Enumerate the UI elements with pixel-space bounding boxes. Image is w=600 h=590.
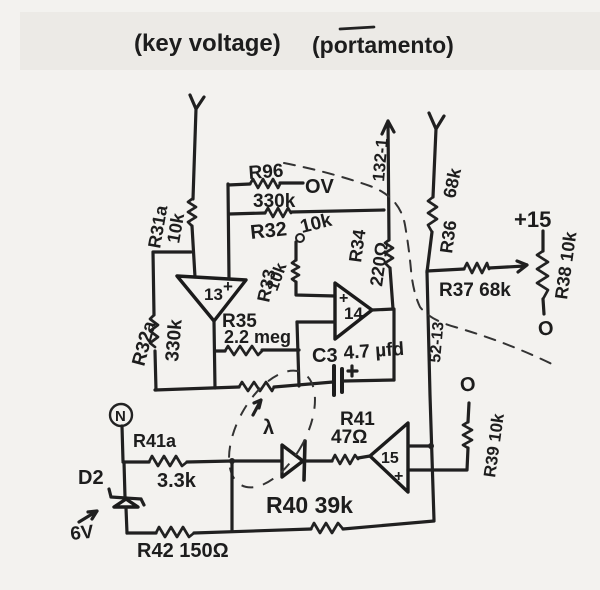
label R40 39k [266, 492, 353, 518]
wire bottom rail [127, 531, 156, 534]
op-amp U14 [335, 283, 372, 339]
label R33 [253, 267, 279, 303]
resistor R36 [428, 197, 437, 232]
wire junction vertical [229, 458, 235, 530]
svg-text:47Ω: 47Ω [331, 427, 367, 448]
svg-text:R40 39k: R40 39k [266, 492, 353, 518]
wire op-amp 13 plus input vertical [228, 184, 229, 278]
svg-text:O: O [459, 373, 477, 397]
label 6V [69, 522, 95, 545]
wire R41a left [123, 460, 149, 463]
label R41a [133, 431, 177, 451]
svg-text:2.2 meg: 2.2 meg [224, 327, 291, 347]
wire R33 top [294, 242, 297, 260]
wire R33 to op-amp 14 plus input [296, 282, 335, 296]
wire R34 to op-amp 14 output node [390, 268, 393, 309]
svg-text:OV: OV [305, 176, 335, 198]
wire R37 to wiper arrow [489, 261, 527, 272]
terminal circle node [296, 234, 304, 242]
label R32 value 10k [298, 210, 334, 238]
portamento input line fork [429, 113, 444, 197]
label lambda [263, 417, 274, 439]
label R35 value 2.2 meg [224, 327, 291, 347]
label R31a [144, 203, 171, 250]
wire bottom rail right [343, 521, 434, 529]
wire diode to R41 [306, 459, 332, 462]
svg-text:330k: 330k [162, 318, 187, 362]
wire zener to bottom rail [126, 508, 127, 533]
svg-text:N: N [115, 408, 126, 425]
node 132-1 input arrow [382, 121, 394, 240]
svg-text:λ: λ [263, 417, 274, 439]
label OV [305, 176, 335, 198]
label O below R38 [537, 317, 555, 341]
wire op-amp 14 minus input [297, 320, 335, 323]
LED of vactrol [282, 441, 305, 480]
wire bottom rail left [155, 387, 239, 390]
svg-text:14: 14 [344, 304, 363, 323]
label O above R39 [459, 373, 477, 397]
label R31a value 10k [163, 211, 188, 245]
label R33 value 10k [263, 260, 291, 294]
wire R96 left [228, 184, 250, 185]
wire C3 right to output node [344, 380, 394, 381]
svg-text:(key voltage): (key voltage) [134, 30, 281, 57]
wire R41 to op-amp 15 [358, 456, 370, 458]
net 52-13 vertical wire [427, 272, 434, 520]
svg-text:+: + [394, 468, 403, 485]
svg-text:R32: R32 [249, 218, 288, 244]
svg-text:3.3k: 3.3k [157, 470, 197, 492]
svg-text:O: O [537, 317, 555, 341]
svg-text:52-13: 52-13 [427, 321, 448, 363]
resistor R31a [188, 199, 196, 226]
wire R38 bottom [543, 299, 544, 314]
wire rail to C3 [274, 382, 333, 387]
wire R41a to junction [187, 461, 232, 462]
wire R32 left [229, 213, 265, 214]
label +15 [514, 207, 551, 232]
label R39 10k [480, 412, 508, 479]
wire op-amp 15 minus input to net 52-13 [408, 443, 434, 449]
label R36 value 68k [439, 165, 465, 200]
wire R96 to OV [280, 181, 303, 184]
op-amp U15 [370, 423, 408, 492]
resistor R39 [463, 422, 472, 448]
label R41 value 47 ohm [331, 427, 367, 448]
wire op-amp 14 output [372, 309, 394, 380]
wire minus input down to rail [297, 322, 299, 386]
svg-text:R41a: R41a [133, 431, 177, 451]
svg-text:R37 68k: R37 68k [439, 280, 511, 301]
svg-text:+15: +15 [514, 207, 551, 232]
label R36 [436, 219, 460, 254]
resistor R37 [464, 263, 489, 273]
svg-text:132-1: 132-1 [369, 137, 392, 182]
resistor R32a [150, 315, 158, 347]
zener diode D2 [109, 489, 144, 507]
resistor R96 [250, 179, 280, 188]
svg-text:6V: 6V [69, 522, 95, 545]
svg-text:D2: D2 [78, 467, 104, 489]
svg-text:13: 13 [204, 285, 223, 304]
label 52-13 [427, 321, 448, 363]
resistor R41 [332, 455, 358, 464]
label R32a value 330k [162, 318, 187, 362]
wire N to R41a row [122, 426, 123, 461]
wire op-amp 13 output down [214, 321, 215, 388]
wire N line to zener [124, 462, 125, 497]
wire R35 tap [215, 349, 225, 352]
label R32 [249, 218, 288, 244]
wire +15 to R38 [541, 231, 544, 251]
label C3 [312, 345, 338, 367]
wire R39 to op-amp 15 plus input [408, 448, 468, 470]
title portamento [312, 27, 454, 58]
wire bottom rail middle [194, 529, 311, 533]
svg-text:R96: R96 [248, 161, 284, 184]
svg-text:R42 150Ω: R42 150Ω [137, 540, 229, 562]
photoresistor of vactrol [239, 382, 274, 391]
wire R32a to bottom rail [155, 351, 156, 390]
label C3 value 4.7 ufd [343, 339, 405, 364]
label 132-1 [369, 137, 392, 182]
wire R31a to op-amp 13 input [192, 226, 195, 277]
wire R35 right [262, 348, 299, 351]
resistor R42 [156, 527, 194, 537]
resistor R40 [311, 523, 343, 533]
label R41a value 3.3k [157, 470, 197, 492]
svg-text:4.7 µfd: 4.7 µfd [343, 339, 405, 364]
lambda arrow [253, 400, 261, 415]
label R34 [345, 228, 369, 263]
resistor R41a [149, 456, 187, 466]
svg-text:+: + [223, 277, 233, 296]
label R38 10k [551, 229, 580, 300]
label R37 68k [439, 280, 511, 301]
wire R36 to R37 junction [427, 232, 432, 272]
label R41 [340, 409, 375, 430]
vactrol dashed envelope [211, 357, 333, 502]
label R96 [248, 161, 284, 184]
wire O to R39 [468, 403, 469, 422]
label D2 [78, 467, 104, 489]
title key voltage [134, 30, 281, 57]
wire R32 to node 132-1 [291, 210, 384, 212]
label R96 value 330k [253, 191, 296, 212]
wire key-voltage input line [190, 95, 204, 199]
label R35 [222, 311, 257, 332]
node N terminal [110, 404, 132, 426]
resistor R32 [265, 208, 291, 217]
wire junction to R32a [153, 252, 191, 315]
svg-text:C3: C3 [312, 345, 338, 367]
svg-text:(portamento): (portamento) [312, 32, 454, 58]
label R34 value 220 ohm [366, 241, 392, 288]
resistor R33 [292, 260, 299, 282]
capacitor C3 [334, 366, 357, 395]
resistor R34 [385, 240, 393, 268]
resistor R35 [225, 346, 262, 355]
label R42 value 150 ohm [137, 540, 229, 562]
dashed signal path curve [284, 163, 558, 367]
wire R37 left [427, 269, 464, 271]
label R32a [129, 319, 161, 369]
potentiometer R38 [537, 251, 548, 299]
6V arrow [79, 511, 97, 522]
op-amp U13 [177, 276, 246, 321]
svg-text:15: 15 [381, 450, 399, 467]
wire diode row left [232, 459, 282, 462]
